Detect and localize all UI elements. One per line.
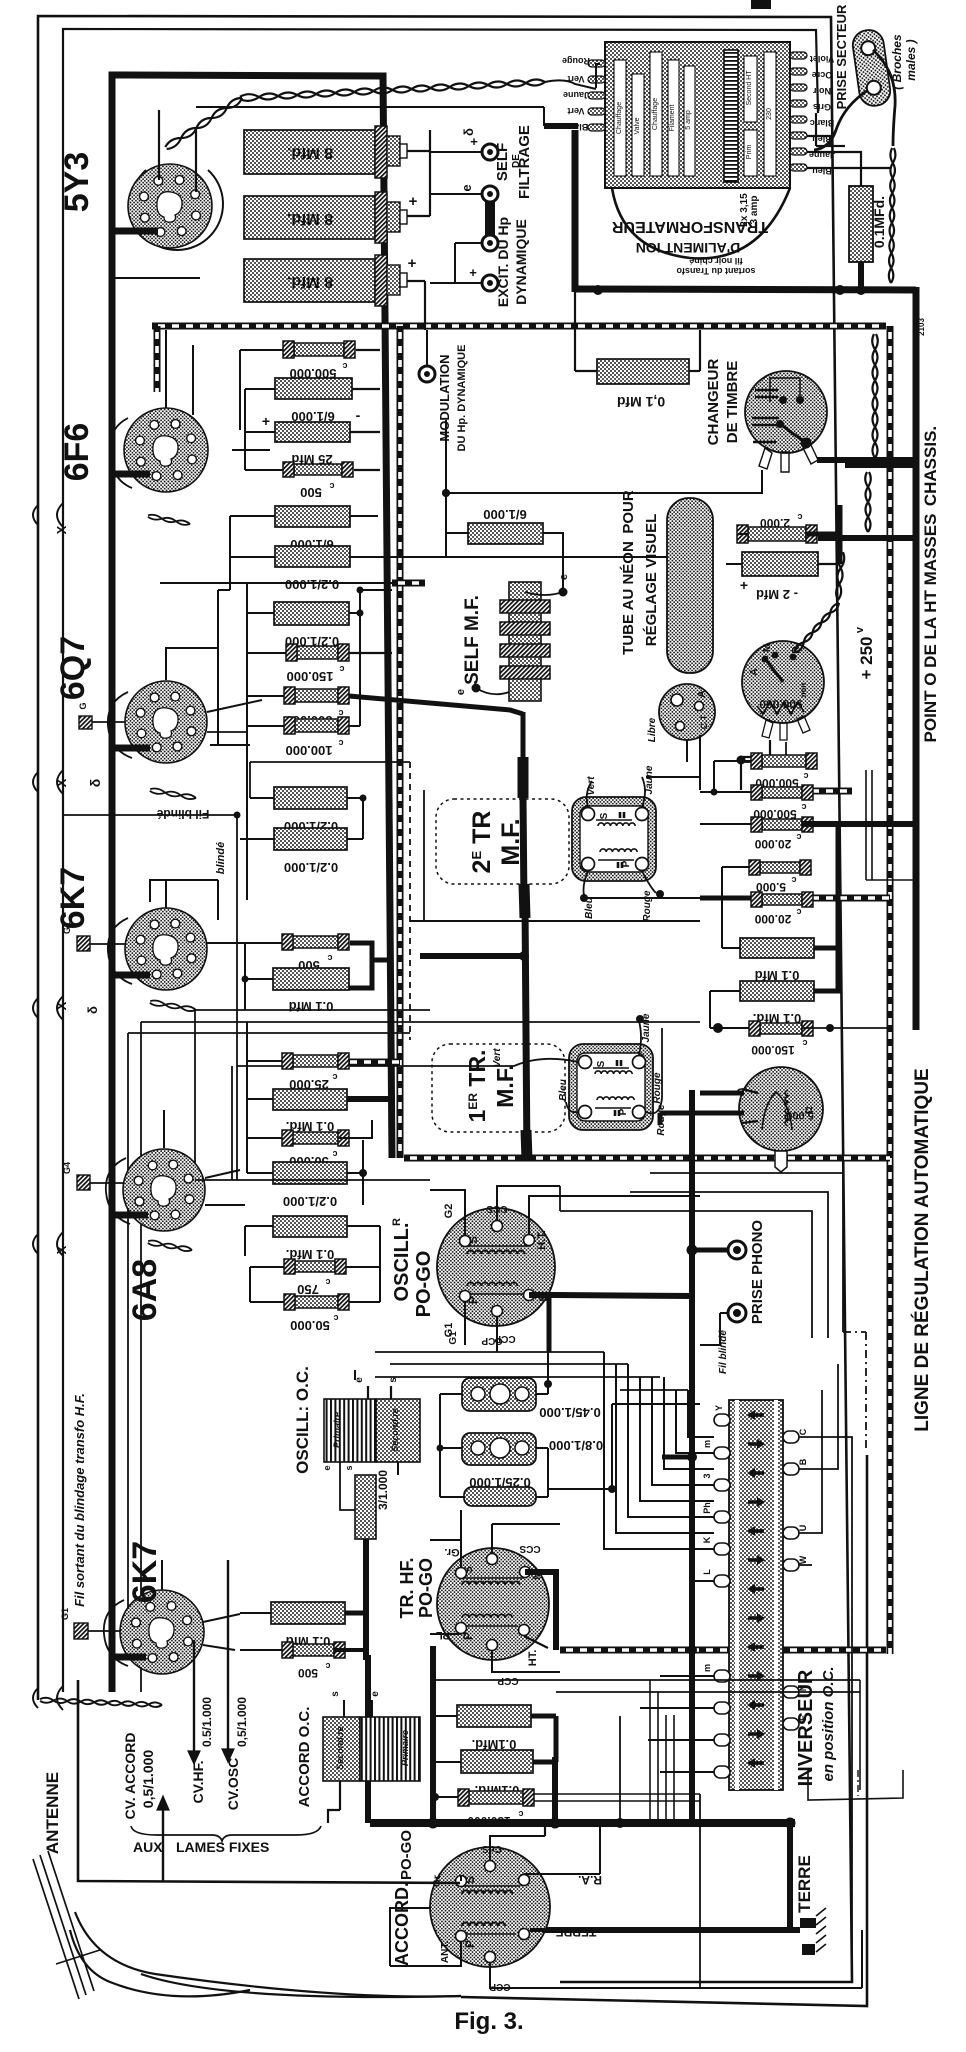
wire 6Q7 plate top <box>166 648 218 680</box>
accord PO-GO coil disc <box>430 1847 550 1967</box>
svg-text:Prim: Prim <box>746 145 753 160</box>
ground symbol terre <box>800 1918 816 1928</box>
svg-text:EXCIT. DU Hp: EXCIT. DU Hp <box>495 217 511 307</box>
svg-text:min: min <box>799 683 808 697</box>
brace aux lames fixes <box>131 1826 321 1841</box>
wire right caps thick joins <box>814 946 838 951</box>
svg-text:Noir: Noir <box>813 86 831 96</box>
svg-text:20.000: 20.000 <box>754 912 791 926</box>
svg-text:c: c <box>796 832 801 842</box>
svg-text:Ph: Ph <box>702 1502 712 1514</box>
inverseur side terminals right <box>783 1431 799 1443</box>
accord OC secondaire block <box>323 1717 360 1781</box>
wire osc M thick <box>529 1295 692 1296</box>
svg-text:males ): males ) <box>904 39 918 80</box>
wire chassis bus right vertical POINT O <box>913 287 920 1030</box>
osc OC terminals top <box>367 1386 369 1399</box>
svg-text:6K7: 6K7 <box>126 1541 164 1603</box>
oscillator PO-GO coil disc <box>437 1208 555 1326</box>
wire 500c/0.1 right thick join <box>349 943 372 988</box>
svg-text:e: e <box>455 689 467 695</box>
svg-text:LIGNE DE RÉGULATION AUTOMAT: LIGNE DE RÉGULATION AUTOMATIQUE <box>911 1068 933 1431</box>
svg-text:G4: G4 <box>62 1162 72 1174</box>
svg-text:POUR: POUR <box>620 490 637 534</box>
tube 6A8 socket <box>123 1149 205 1231</box>
wire 500k stub <box>240 349 283 351</box>
transformer winding blocks <box>614 60 626 176</box>
svg-text:c: c <box>325 1661 330 1671</box>
svg-text:A: A <box>696 690 708 698</box>
transformer lead stubs right <box>790 52 807 59</box>
wire left cathode bus <box>109 228 116 1692</box>
svg-text:m: m <box>702 1440 712 1448</box>
AVC line horizontal top <box>152 323 886 330</box>
svg-text:SELF M.F.: SELF M.F. <box>462 595 483 685</box>
svg-text:G2: G2 <box>443 1204 455 1219</box>
svg-text:c: c <box>325 1277 330 1287</box>
changeur capacitor marks <box>755 389 778 392</box>
svg-text:fil noir chiné: fil noir chiné <box>689 256 743 266</box>
AVC line horizontal y898 right <box>806 895 890 902</box>
wire stub to phono bus y1457 <box>662 1455 692 1460</box>
svg-text:0.2/1.000: 0.2/1.000 <box>285 577 339 592</box>
svg-text:3: 3 <box>702 1473 712 1478</box>
svg-text:blindé: blindé <box>215 842 227 874</box>
TR HF wires <box>430 1540 461 1568</box>
svg-text:Ω: Ω <box>804 1106 814 1113</box>
resistor 100.000 6Q7 <box>295 719 338 732</box>
svg-text:Fil blindé: Fil blindé <box>718 1330 729 1374</box>
svg-text:CdS: CdS <box>482 1843 502 1854</box>
MF2 coil S <box>593 1067 629 1069</box>
wire main ground bus thick <box>370 1819 795 1827</box>
terminal prise phono 1 <box>728 1241 746 1259</box>
svg-text:+ 250: + 250 <box>857 636 876 679</box>
wire bottom horizontals right <box>700 1987 862 1989</box>
wire 150.000 right double line <box>534 1793 700 1795</box>
svg-text:ACCORD O.C.: ACCORD O.C. <box>296 1707 313 1808</box>
svg-text:c: c <box>797 512 802 522</box>
wire 6A8 squiggle <box>148 1243 192 1251</box>
tube 5Y3 envelope loop <box>131 170 223 250</box>
svg-text:2103: 2103 <box>917 318 926 336</box>
tube 6Q7 envelope arc <box>108 692 132 758</box>
svg-text:0.1 Mfd: 0.1 Mfd <box>289 999 334 1014</box>
wire 0.1Mfd thick right <box>347 1096 392 1102</box>
svg-text:PO-GO: PO-GO <box>413 1251 435 1318</box>
wire y956 thick <box>420 953 524 959</box>
wire y1211 right <box>560 1210 700 1212</box>
TR HF terminals <box>456 1568 467 1579</box>
wire 0.1Mfd rf right thick <box>345 1611 365 1616</box>
AVC line horizontal y1062 short <box>344 1059 400 1066</box>
wire right verticals bottom <box>649 1680 651 1827</box>
svg-text:Chauffage: Chauffage <box>652 98 659 130</box>
svg-text:S: S <box>596 1060 607 1067</box>
svg-text:L: L <box>702 1569 712 1575</box>
self MF coil bands <box>500 600 550 613</box>
wire B+ top bus <box>112 75 392 1158</box>
svg-text:M.F.: M.F. <box>492 1064 518 1107</box>
pot 5.000 bottom tab <box>775 1151 787 1172</box>
svg-text:+: + <box>409 193 418 210</box>
svg-text:c: c <box>332 1149 337 1159</box>
wire modulation stub <box>426 330 428 366</box>
wire collector x247 <box>246 583 248 900</box>
wire plug to cap <box>830 145 845 147</box>
border inner frame <box>63 29 818 1692</box>
wire long y1010 <box>195 1009 430 1011</box>
svg-text:CHASSIS.: CHASSIS. <box>921 426 940 506</box>
capacitor 0.1 Mfd 6A8 <box>273 1216 347 1237</box>
grid cap square G 6Q7 <box>79 716 92 729</box>
twisted right column a <box>872 334 877 458</box>
svg-text:Second.re: Second.re <box>390 1408 400 1452</box>
wire ground bus left risers <box>365 1655 371 1823</box>
resistor 500.000 right a <box>762 755 806 767</box>
svg-text:D'ALIMENT ION: D'ALIMENT ION <box>636 240 740 256</box>
svg-text:ANTENNE: ANTENNE <box>43 1772 62 1854</box>
terminal excitation 1 <box>482 235 498 251</box>
svg-text:AUX: AUX <box>133 1839 163 1855</box>
wire long y1022 <box>141 1021 700 1023</box>
svg-text:TERRE: TERRE <box>556 1925 597 1939</box>
resistor 0.2/1.000 no.2 <box>274 787 347 809</box>
svg-text:c: c <box>338 738 343 748</box>
transformer bell curve <box>612 188 790 258</box>
svg-text:+: + <box>262 413 270 429</box>
svg-text:CCP: CCP <box>494 1333 515 1344</box>
wire 0.2 col stubs <box>249 762 251 798</box>
grid cap square G4 <box>77 1175 90 1190</box>
svg-text:Violet: Violet <box>810 54 834 64</box>
MF2 lead wires <box>432 1059 578 1066</box>
svg-text:G1: G1 <box>60 1608 70 1620</box>
tube 5Y3 socket <box>128 164 212 248</box>
wire comb nested L wires to inverseur <box>604 1352 714 1549</box>
accord terminals <box>456 1876 467 1887</box>
resistor 500c rf <box>293 1644 334 1656</box>
svg-text:DE TIMBRE: DE TIMBRE <box>724 361 741 444</box>
accord OC primaire block <box>360 1717 420 1781</box>
wire 6K7 rf stub <box>112 1654 146 1661</box>
transformer core bar <box>724 50 738 182</box>
svg-text:MODULATION: MODULATION <box>437 354 452 441</box>
wire 5Y3 plate leads <box>158 110 160 180</box>
AVC line vertical left short <box>154 326 161 392</box>
grid cap square G1 6K7 <box>77 936 90 951</box>
svg-text:20.000: 20.000 <box>754 837 791 851</box>
svg-text:Second.re: Second.re <box>335 1726 345 1770</box>
svg-text:100.000: 100.000 <box>286 743 333 758</box>
wire y1680 bundle <box>430 1679 860 1681</box>
svg-text:DYNAMIQUE: DYNAMIQUE <box>513 219 529 305</box>
resistor 500c 6K7 <box>293 936 338 948</box>
svg-text:C: C <box>798 1428 808 1435</box>
svg-text:0.1MFd.: 0.1MFd. <box>871 196 887 248</box>
svg-text:G: G <box>78 702 88 709</box>
resistor 150.000 bottom <box>469 1791 523 1804</box>
wire caps left stubs <box>440 1393 462 1395</box>
svg-text:RÉGLAGE VISUEL: RÉGLAGE VISUEL <box>643 514 660 647</box>
svg-text:6Q7: 6Q7 <box>54 636 92 700</box>
osc coil P <box>467 1282 517 1286</box>
capacitor 0.25/1.000 <box>464 1487 536 1506</box>
wire osc OC left lead <box>340 1462 355 1510</box>
svg-text:5 amp: 5 amp <box>685 110 692 130</box>
svg-text:ACCORD.: ACCORD. <box>392 1882 412 1966</box>
wire terre bus thick <box>540 1927 800 1933</box>
MF2 coil P <box>597 1097 634 1100</box>
wire vertical from transformer <box>572 130 579 292</box>
wire neon leads down <box>686 740 688 762</box>
tube 6Q7 socket <box>125 681 207 763</box>
svg-text:R.A.: R.A. <box>578 1873 602 1887</box>
svg-text:s: s <box>344 1465 354 1470</box>
svg-text:Chauffage: Chauffage <box>616 102 623 134</box>
svg-text:A: A <box>749 668 760 675</box>
wire bus to terre <box>787 1822 793 1930</box>
svg-text:Vert: Vert <box>567 74 584 84</box>
resistor 6/1.000 center <box>468 523 543 544</box>
svg-text:Bleu: Bleu <box>558 1079 569 1101</box>
svg-text:PO-GO: PO-GO <box>398 1830 415 1880</box>
wire twisted pair 5Y3 to transformer <box>167 98 242 149</box>
tube 6A8 envelope arc <box>106 1158 130 1224</box>
AVC line horizontal y1650 <box>560 1647 886 1654</box>
capacitor 2.000c right <box>748 527 806 541</box>
AVC line vertical right x890 <box>887 326 894 1654</box>
svg-text:CHANGEUR: CHANGEUR <box>705 359 722 446</box>
wire hop loops on left border <box>57 503 63 527</box>
svg-text:SELF: SELF <box>494 143 511 181</box>
svg-text:Fil blindé: Fil blindé <box>156 807 209 821</box>
pot arrow <box>766 660 783 682</box>
svg-text:0,5/1.000: 0,5/1.000 <box>235 1697 249 1747</box>
tube 6K7 socket <box>125 908 207 990</box>
neon pins <box>671 694 683 706</box>
capacitor 0.45/1.000 <box>462 1378 536 1411</box>
capacitor 0.1Mfd bottom b <box>461 1750 533 1773</box>
resistor 50.000 left <box>293 1132 338 1144</box>
svg-text:+: + <box>469 265 477 280</box>
accord OC bottom leads <box>339 1781 341 1810</box>
svg-text:Filament: Filament <box>669 105 676 132</box>
twisted diagonal to pot <box>836 552 842 600</box>
svg-text:e: e <box>370 1691 381 1697</box>
wire nested rectangles right of phono <box>650 1173 843 1332</box>
wire MF1 jaune top to bus <box>646 776 700 778</box>
svg-text:c: c <box>803 771 808 781</box>
MF can no.2 <box>569 1044 653 1130</box>
svg-text:ANT.: ANT. <box>440 1941 451 1963</box>
capacitor 25 Mfd <box>275 422 350 442</box>
capacitor 8 Mfd no.2 <box>244 196 375 239</box>
svg-text:150.000: 150.000 <box>287 669 334 684</box>
MF1 coil P <box>600 849 637 852</box>
transformer d alimentation box <box>605 42 790 188</box>
neon tube bulb <box>659 684 715 740</box>
wire 6Q7 to resistor row <box>207 731 247 733</box>
pot zigzag <box>757 702 804 714</box>
resistor 20.000 right b <box>762 894 802 905</box>
tube 6F6 envelope arc <box>110 418 132 488</box>
svg-text:+: + <box>408 255 417 272</box>
inverseur switch strip <box>729 1400 783 1790</box>
osc wires <box>430 1190 465 1236</box>
svg-text:6A8: 6A8 <box>126 1259 164 1321</box>
svg-text:Vert: Vert <box>567 106 584 116</box>
svg-text:Second HT: Second HT <box>746 70 753 106</box>
svg-text:50.000: 50.000 <box>290 1318 330 1333</box>
svg-text:-: - <box>356 407 361 423</box>
svg-text:FILTRAGE: FILTRAGE <box>516 125 533 199</box>
MF can no.1 <box>572 797 656 881</box>
wire self MF top to 6/1.000 <box>543 533 563 592</box>
resistor 25.000 left <box>293 1055 338 1067</box>
svg-text:DU Hp. DYNAMIQUE: DU Hp. DYNAMIQUE <box>456 345 468 452</box>
svg-text:Gr.: Gr. <box>444 1546 459 1558</box>
svg-text:e: e <box>322 1465 332 1470</box>
inverseur right wires <box>799 1437 852 1982</box>
oscillator OC primaire block <box>324 1399 376 1462</box>
wire 6A8 bottom col <box>249 1267 251 1302</box>
inverseur contacts arrows <box>750 1413 764 1417</box>
wire caps right stubs <box>536 1393 548 1395</box>
svg-text:Gr.: Gr. <box>432 1873 443 1887</box>
resistor 0.2/1.000 6A8 <box>273 1162 347 1184</box>
wire x700 vertical bottom <box>699 1794 701 1988</box>
accord coil P <box>462 1922 505 1926</box>
resistor 750c <box>295 1261 335 1272</box>
svg-text:δ: δ <box>85 1006 100 1014</box>
svg-text:CV.OSC: CV.OSC <box>225 1758 241 1810</box>
capacitor 0.1 Mfd right b <box>740 981 814 1001</box>
svg-text:0.2/1.000: 0.2/1.000 <box>284 860 338 875</box>
svg-text:Fil sortant du blindage transf: Fil sortant du blindage transfo H.F. <box>72 1393 87 1607</box>
svg-text:750: 750 <box>297 1282 319 1297</box>
junction dots on HT bus <box>593 285 603 295</box>
wire osc OC sec down <box>397 1462 399 1475</box>
resistor 0,1 Mfd horizontal mid <box>597 359 689 384</box>
svg-text:M: M <box>762 644 773 652</box>
capacitor 0.1 Mfd right a <box>740 938 814 958</box>
svg-text:8 Mfd.: 8 Mfd. <box>287 144 333 161</box>
wire 6F6 stub to bus <box>112 471 150 478</box>
wire 6F6 squiggle <box>148 517 190 525</box>
wire fil blinde <box>63 814 237 816</box>
svg-text:3/1.000: 3/1.000 <box>376 1470 390 1510</box>
wire double vertical right x867 <box>865 770 867 880</box>
capacitor 8 Mfd no.1 <box>244 130 375 174</box>
antenna slanted lines <box>33 1859 79 1999</box>
wire 6A8 bottom to osc <box>195 1179 430 1181</box>
resistor 500.000 6Q7 <box>295 689 338 702</box>
border outer bottom line <box>461 1455 867 2006</box>
resistor 0.2/1.000 no.3 <box>274 828 347 850</box>
tube 6F6 socket <box>124 408 208 492</box>
svg-text:C.T: C.T <box>699 714 709 729</box>
wire accord terre thick <box>530 1928 545 1932</box>
neon tube capsule <box>667 498 713 673</box>
self MF terminal e bottom <box>472 684 481 693</box>
svg-text:c: c <box>796 907 801 917</box>
AVC line horizontal y1158 <box>404 1155 890 1162</box>
svg-text:S: S <box>599 812 610 819</box>
wire inverseur comb left verticals bottom <box>619 1716 621 1823</box>
svg-text:W: W <box>798 1555 808 1564</box>
svg-text:+: + <box>740 577 748 593</box>
wire bus 0.1Mfd down to HT bus <box>858 262 864 291</box>
pot 5.000 inner <box>762 1092 792 1130</box>
svg-text:TERRE: TERRE <box>795 1855 814 1913</box>
svg-text:6F6: 6F6 <box>58 423 96 482</box>
1er TR MF dashed box <box>432 1044 565 1132</box>
osc coil S <box>467 1250 525 1254</box>
svg-text:0.45/1.000: 0.45/1.000 <box>539 1405 600 1420</box>
tube 6K7 envelope arc <box>108 918 132 984</box>
wire accord ccp <box>490 1963 700 1988</box>
wire bundle horizontals above switch <box>375 1351 604 1353</box>
capacitor 8 Mfd no.3 <box>244 259 375 302</box>
MF1 terminals <box>582 808 595 821</box>
capacitor 0.1Mfd bottom a <box>457 1705 531 1727</box>
wire terminals left stubs <box>430 151 482 153</box>
svg-text:Y: Y <box>714 1405 724 1411</box>
svg-text:U: U <box>798 1525 808 1532</box>
wire MF2 green long to 6K7 <box>237 1065 432 1067</box>
svg-text:CV.HF.: CV.HF. <box>190 1760 206 1803</box>
svg-text:6/1.000: 6/1.000 <box>483 507 526 522</box>
pot legs <box>762 720 773 738</box>
svg-text:c: c <box>801 802 806 812</box>
svg-text:c: c <box>339 664 344 674</box>
svg-text:OSCILL: O.C.: OSCILL: O.C. <box>293 1366 312 1474</box>
TR HF PO-GO coil disc <box>437 1548 549 1660</box>
svg-text:0.8/1.000: 0.8/1.000 <box>549 1438 603 1453</box>
svg-text:TR. HF.: TR. HF. <box>397 1558 417 1619</box>
wire HT bus right horizontal <box>575 289 916 290</box>
resistor 500.000 top-left <box>294 343 344 356</box>
oscillator OC secondaire block <box>376 1399 420 1462</box>
wire 0,1Mfd to buses <box>574 292 576 371</box>
svg-text:Ocre: Ocre <box>812 70 833 80</box>
wire under-tube thin <box>112 277 200 279</box>
wire 6K7 row link <box>244 943 246 1010</box>
svg-text:c: c <box>327 953 332 963</box>
svg-text:PRISE PHONO: PRISE PHONO <box>749 1220 766 1325</box>
terminal modulation <box>419 366 435 382</box>
svg-text:0.25/1.000: 0.25/1.000 <box>469 1475 530 1490</box>
resistor 0.2/1.000 6Q7 top <box>274 602 349 625</box>
svg-text:δ: δ <box>87 779 103 788</box>
wire column collector left <box>217 590 219 745</box>
svg-text:INVERSEUR: INVERSEUR <box>795 1669 817 1786</box>
svg-text:Rouge: Rouge <box>562 56 590 66</box>
svg-text:150.000: 150.000 <box>751 1043 795 1057</box>
wire long y1033 <box>128 1032 410 1034</box>
arrow CV HF down <box>193 1698 195 1760</box>
svg-text:Rouge: Rouge <box>642 890 653 922</box>
wire pot legs down <box>741 740 770 757</box>
wire pot5000 left thick <box>700 1091 744 1096</box>
svg-text:X: X <box>54 1001 69 1010</box>
changeur legs <box>759 448 772 469</box>
svg-text:0.2/1.000: 0.2/1.000 <box>283 1194 337 1209</box>
svg-text:Libre: Libre <box>647 717 658 742</box>
2e TR MF dashed box <box>436 799 569 884</box>
svg-text:G1: G1 <box>448 1331 459 1345</box>
